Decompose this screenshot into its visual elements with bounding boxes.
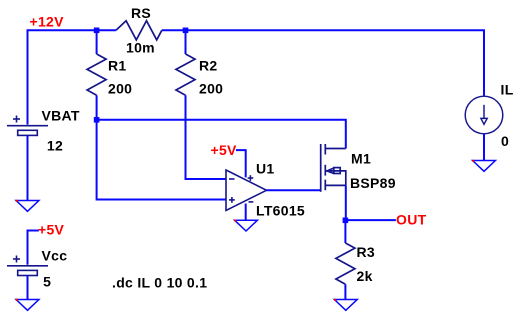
battery Vcc <box>7 256 48 276</box>
wire R1 bottom lead <box>96 95 98 120</box>
svg-text:U1: U1 <box>256 161 275 177</box>
wire R1 bottom to M1 drain column <box>97 120 346 149</box>
wire top rail left segment <box>28 30 117 124</box>
wire top rail right segment <box>162 30 484 96</box>
op-amp U1 <box>226 170 267 211</box>
node junction R1-bottom <box>94 117 100 123</box>
ground R3 <box>334 300 357 311</box>
wire R3 bottom lead <box>344 284 346 299</box>
node junction RS/R2 <box>183 28 189 34</box>
wire R3 top lead <box>344 220 346 243</box>
wire M1 source to OUT junction <box>345 185 347 220</box>
svg-text:200: 200 <box>108 81 132 97</box>
svg-text:BSP89: BSP89 <box>350 175 396 191</box>
battery VBAT <box>7 116 48 136</box>
ground op-amp <box>235 220 258 231</box>
current source IL <box>465 96 503 134</box>
svg-text:5: 5 <box>43 273 51 289</box>
svg-text:12: 12 <box>47 137 63 153</box>
svg-text:+5V: +5V <box>38 222 65 238</box>
svg-text:IL: IL <box>501 82 514 98</box>
transistor M1 <box>321 144 346 192</box>
wire Vcc bottom <box>27 276 29 300</box>
resistor R1 <box>87 54 106 95</box>
resistor R3 <box>336 243 355 284</box>
svg-text:LT6015: LT6015 <box>256 203 305 219</box>
svg-text:2k: 2k <box>357 268 373 284</box>
svg-text:R2: R2 <box>199 58 218 74</box>
wire +5V stub to op-amp V+ pin <box>236 150 246 177</box>
node junction +12V/R1 <box>94 28 100 34</box>
ground IL <box>473 161 496 172</box>
svg-text:VBAT: VBAT <box>42 108 80 124</box>
svg-text:200: 200 <box>199 81 223 97</box>
resistor R2 <box>176 54 195 95</box>
wire R2 top lead <box>185 30 187 54</box>
wire op-amp output to M1 gate <box>267 189 321 191</box>
svg-text:10m: 10m <box>126 40 155 56</box>
svg-text:M1: M1 <box>351 151 371 167</box>
wire op-amp V- pin to ground <box>245 204 247 220</box>
node junction OUT <box>343 218 349 224</box>
svg-text:R1: R1 <box>108 58 127 74</box>
wire R1 bottom down to op-amp non-inverting input <box>97 120 226 200</box>
svg-text:.dc IL 0 10 0.1: .dc IL 0 10 0.1 <box>112 275 207 291</box>
ground Vcc <box>16 300 39 311</box>
wire VBAT bottom <box>27 135 29 200</box>
svg-text:+5V: +5V <box>211 142 238 158</box>
wire IL bottom to ground <box>483 134 485 160</box>
svg-text:Vcc: Vcc <box>42 248 68 264</box>
svg-text:0: 0 <box>501 133 509 149</box>
svg-text:+12V: +12V <box>30 14 65 30</box>
wire OUT <box>345 219 396 221</box>
resistor RS <box>116 21 162 40</box>
svg-text:R3: R3 <box>357 244 376 260</box>
ground VBAT <box>16 201 39 212</box>
wire R2 lead down to op-amp inverting input <box>186 95 227 179</box>
wire R1 top lead <box>96 30 98 54</box>
wire +5V stub to Vcc <box>28 231 39 265</box>
svg-text:OUT: OUT <box>396 212 427 228</box>
svg-text:RS: RS <box>131 5 151 21</box>
